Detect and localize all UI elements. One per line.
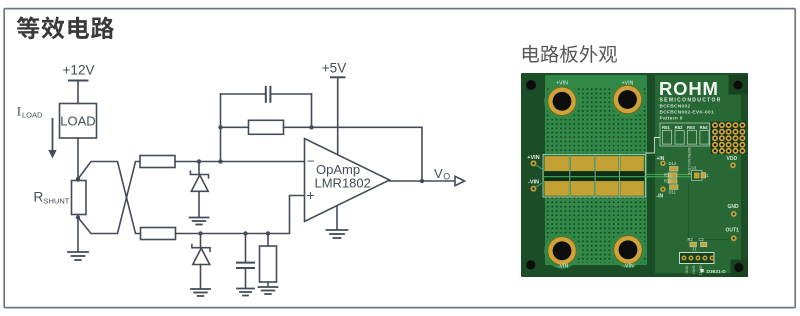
junction minus input node <box>218 159 222 163</box>
corner screw holes <box>526 75 748 277</box>
footprints R2 C2 <box>688 237 707 247</box>
via grid 5x5 <box>711 122 746 154</box>
svg-text:D12: D12 <box>669 161 677 166</box>
junction C2 top <box>243 231 247 235</box>
svg-text:R54: R54 <box>700 125 708 130</box>
board code D3631-D <box>701 269 727 275</box>
output arrow <box>455 176 465 185</box>
svg-text:OUT1: OUT1 <box>726 228 740 234</box>
svg-text:LOAD: LOAD <box>60 114 95 129</box>
svg-text:+VIN: +VIN <box>527 155 539 161</box>
resistor R3 <box>260 234 277 287</box>
junction R3 top <box>266 231 270 235</box>
+12V supply <box>69 81 88 104</box>
svg-text:D3631-D: D3631-D <box>707 269 727 275</box>
svg-text:O: O <box>443 171 450 181</box>
svg-text:R: R <box>34 190 44 205</box>
silkscreen link line <box>645 138 660 154</box>
component cluster D12 R12 R11 D11 U1 C1 <box>664 148 710 195</box>
svg-text:C2: C2 <box>699 237 705 242</box>
hole clearings <box>544 77 646 269</box>
hole labels <box>556 81 634 270</box>
svg-text:+: + <box>307 187 315 203</box>
resistor R4 feedback <box>221 120 312 134</box>
svg-text:Pattern 0: Pattern 0 <box>660 116 683 122</box>
svg-text:-VIN: -VIN <box>623 264 634 270</box>
pcb inner region <box>655 75 741 273</box>
svg-text:R52: R52 <box>675 125 683 130</box>
capacitor C1 feedback <box>221 87 312 102</box>
wire kelvin top tap <box>78 162 141 234</box>
pcb bright band <box>545 75 647 265</box>
svg-text:BCFBCN002-EVK-001: BCFBCN002-EVK-001 <box>660 110 714 116</box>
wire feedback right vertical <box>311 94 313 127</box>
svg-text:D11: D11 <box>669 190 677 195</box>
pad +IN <box>657 156 666 166</box>
wire op-amp ground <box>336 206 338 230</box>
wire kelvin bottom tap <box>78 162 140 234</box>
+5V supply <box>331 77 345 154</box>
svg-text:VDD: VDD <box>685 266 689 274</box>
svg-text:R51: R51 <box>662 125 670 130</box>
junction D2 anode <box>198 231 202 235</box>
load box <box>60 104 97 139</box>
schematic labels <box>17 61 451 206</box>
svg-text:+12V: +12V <box>63 63 95 78</box>
svg-text:V: V <box>434 166 443 181</box>
pcb board base <box>521 73 748 277</box>
junction shunt bottom <box>76 215 80 219</box>
mounting hole -VIN bottom-left <box>548 237 576 265</box>
op-amp U1 <box>305 139 390 222</box>
resistor R2 <box>141 228 176 240</box>
capacitor C2 <box>237 234 254 289</box>
svg-text:LMR1802: LMR1802 <box>315 176 371 191</box>
svg-text:GND: GND <box>728 204 740 210</box>
wire feedback left vertical <box>220 94 222 162</box>
svg-text:U1: U1 <box>692 166 698 171</box>
svg-text:−: − <box>307 154 315 169</box>
svg-text:SEMICONDUCTOR: SEMICONDUCTOR <box>660 98 722 104</box>
traces <box>688 184 731 240</box>
svg-text:+5V: +5V <box>322 61 346 76</box>
mounting hole +VIN top-right <box>613 85 641 113</box>
svg-text:GND: GND <box>692 266 696 275</box>
junction feedback left <box>218 125 222 129</box>
ground for C2 <box>237 289 254 296</box>
ground for D1 <box>190 218 209 225</box>
svg-text:-VIN: -VIN <box>558 264 569 270</box>
pad VDD <box>727 156 738 168</box>
board id text <box>660 104 714 122</box>
pad OUT1 <box>726 228 740 242</box>
svg-text:BCFBCN002: BCFBCN002 <box>660 104 691 110</box>
ground for R3 <box>259 287 278 294</box>
footprints R51-R54 <box>660 123 710 146</box>
pad -IN <box>657 187 666 200</box>
wire shunt to ground <box>77 215 79 252</box>
title 电路板外观 <box>523 45 539 62</box>
svg-text:VDD: VDD <box>727 156 738 162</box>
wire minus line <box>175 161 305 163</box>
title 等效电路 <box>17 16 40 39</box>
ground op-amp <box>327 230 348 238</box>
mounting hole +VIN top-left <box>548 87 576 115</box>
current arrow <box>48 118 56 159</box>
svg-text:R2: R2 <box>688 237 694 242</box>
test point -VIN <box>528 180 545 192</box>
pad GND <box>728 204 740 217</box>
svg-text:-VIN: -VIN <box>528 180 539 186</box>
junction output node <box>420 179 424 183</box>
ground for D2 <box>191 289 210 296</box>
junction D1 anode <box>197 159 201 163</box>
svg-text:SHUNT: SHUNT <box>44 197 70 206</box>
junction shunt top <box>76 177 80 181</box>
junction feedback right <box>309 125 313 129</box>
wire output <box>390 180 455 182</box>
svg-text:BCFBCN002-EVK: BCFBCN002-EVK <box>687 148 691 176</box>
svg-text:LOAD: LOAD <box>22 111 43 120</box>
zener diode D1 <box>190 162 208 218</box>
connector J1 <box>680 247 715 276</box>
resistor R_SHUNT <box>72 181 87 215</box>
test point +VIN <box>527 155 545 171</box>
svg-text:R53: R53 <box>687 125 695 130</box>
svg-text:-IN: -IN <box>657 194 664 200</box>
svg-text:+VIN: +VIN <box>622 81 634 87</box>
resistor R1 <box>140 156 175 168</box>
wire feedback to output <box>312 127 423 181</box>
ground <box>68 252 88 260</box>
svg-text:+VIN: +VIN <box>556 81 568 87</box>
mounting hole -VIN bottom-right <box>614 236 642 264</box>
svg-text:R11: R11 <box>664 179 672 184</box>
svg-text:J1: J1 <box>692 247 697 252</box>
zener diode D2 <box>192 234 210 289</box>
svg-text:I: I <box>17 104 21 119</box>
input pad block <box>543 154 691 197</box>
svg-text:R12: R12 <box>664 173 672 178</box>
svg-text:ROHM: ROHM <box>659 78 719 99</box>
wire plus line <box>176 196 305 234</box>
wire load to shunt <box>77 138 79 181</box>
